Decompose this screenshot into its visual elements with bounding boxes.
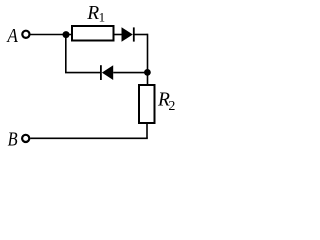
svg-text:R1: R1	[86, 3, 105, 25]
junction dot at node after A	[63, 31, 70, 38]
svg-text:B: B	[8, 130, 18, 151]
wire A to junction/R1	[30, 34, 72, 36]
diode D2 (pointing left)	[100, 65, 102, 80]
wire R1 to diode D1	[114, 34, 123, 36]
svg-text:R2: R2	[157, 90, 175, 114]
wire R2 to bottom corner	[146, 123, 148, 138]
wire left vertical down from junction	[65, 35, 67, 73]
diode D1 (pointing right)	[122, 27, 133, 42]
junction dot at node above R2	[144, 69, 151, 76]
svg-text:A: A	[6, 26, 18, 47]
wire middle row left segment	[65, 72, 101, 74]
wire D1 to right corner	[134, 34, 148, 36]
node A terminal circle	[22, 31, 29, 38]
wire junction to R2	[147, 73, 149, 85]
wire bottom row	[30, 137, 148, 139]
node B terminal circle	[22, 135, 29, 142]
resistor R1	[72, 26, 114, 41]
resistor R2	[139, 85, 155, 123]
wire right vertical down	[147, 34, 149, 73]
wire middle row right segment	[113, 72, 148, 74]
